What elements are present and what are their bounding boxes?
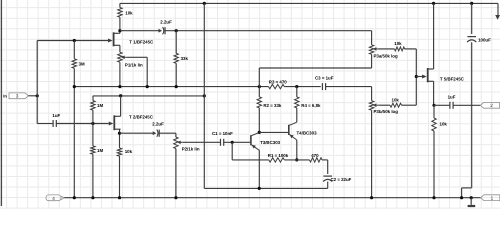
wire T1 source lead xyxy=(119,45,121,52)
node mid rail R2 xyxy=(258,85,261,88)
resistor 10k (P3b) xyxy=(390,103,402,107)
svg-text:T 1/BF245C: T 1/BF245C xyxy=(129,40,154,45)
node 1M junction xyxy=(91,122,94,125)
node C1 junction xyxy=(231,141,234,144)
node gnd 100uF xyxy=(460,196,463,199)
svg-text:10k: 10k xyxy=(392,98,400,103)
wire 2.2uF-b left xyxy=(120,132,154,134)
potentiometer P3b xyxy=(369,101,373,111)
node T3 collector xyxy=(258,131,261,134)
svg-text:1uF: 1uF xyxy=(448,94,456,99)
capacitor 100uF xyxy=(467,36,476,38)
wire T4 base xyxy=(259,131,288,133)
wire R1 to 470 xyxy=(284,159,309,161)
connector 4 (ground) xyxy=(46,195,61,201)
transistor T2 xyxy=(113,115,115,130)
wire 3M to ground xyxy=(73,87,75,198)
svg-text:P3b/50k log: P3b/50k log xyxy=(374,109,399,114)
wire 10k-right leads xyxy=(433,105,435,118)
svg-text:In: In xyxy=(3,93,7,98)
wire T2 source xyxy=(119,129,121,148)
node mid rail 33k xyxy=(175,85,178,88)
wire top rail xyxy=(120,2,498,4)
node gnd 1M xyxy=(91,196,94,199)
ground xyxy=(470,198,472,205)
svg-text:P3a/50k log: P3a/50k log xyxy=(374,53,398,58)
wire C1 down xyxy=(231,142,233,160)
power arrow xyxy=(495,15,500,20)
wire P2 wiper to C1 xyxy=(183,141,221,143)
resistor 3M xyxy=(72,59,76,69)
svg-text:3M: 3M xyxy=(79,62,85,67)
wire C2 bottom xyxy=(327,182,329,189)
frame left border xyxy=(0,0,2,206)
wire mid rail right xyxy=(326,86,372,88)
resistor R3 = 470 xyxy=(269,84,285,88)
potentiometer P2 xyxy=(174,137,178,149)
node gnd P2 xyxy=(174,196,177,199)
svg-text:10k: 10k xyxy=(394,41,402,46)
wire supply corner xyxy=(497,3,499,15)
transistor T5 xyxy=(427,68,429,82)
wire T5 gate xyxy=(416,76,422,78)
wire 10k to gate corner xyxy=(405,48,417,50)
node 3M top xyxy=(73,39,76,42)
svg-text:100uF: 100uF xyxy=(478,37,491,42)
capacitor C1 = 10nF xyxy=(220,139,222,146)
resistor 33k xyxy=(174,53,178,63)
node In xyxy=(36,94,39,97)
svg-text:2: 2 xyxy=(490,103,493,108)
resistor 10k (T1 drain) xyxy=(118,8,122,18)
wire T5 drain xyxy=(433,3,435,69)
resistor R1 = 100k xyxy=(269,158,285,162)
node T1 drain junction xyxy=(118,29,121,32)
wire 33k leads xyxy=(175,31,177,54)
potentiometer P1 xyxy=(118,52,122,62)
wire mid rail mid xyxy=(284,86,321,88)
wire R4 leads xyxy=(296,87,298,97)
svg-text:R2 = 33k: R2 = 33k xyxy=(263,103,282,108)
node top rail junction C xyxy=(470,2,473,5)
wire P3a top xyxy=(371,31,373,45)
node top rail junction B xyxy=(432,2,435,5)
svg-text:T3/BC303: T3/BC303 xyxy=(260,140,281,145)
wire 1uF right xyxy=(56,123,108,125)
connector 1 (supply) xyxy=(481,195,500,201)
wire output left xyxy=(434,104,450,106)
wire 100uF bottom xyxy=(471,42,473,188)
resistor R4 = 6,8k xyxy=(295,97,299,108)
svg-text:10k: 10k xyxy=(125,149,133,154)
resistor 1M (lower) xyxy=(91,146,95,154)
svg-text:P2/1k lin: P2/1k lin xyxy=(182,146,200,151)
potentiometer P3a xyxy=(369,45,373,55)
wire P3b top xyxy=(371,87,373,101)
wire 1M#2 leads xyxy=(92,124,94,146)
capacitor 1uF (output) xyxy=(449,102,451,109)
wire 2.2uF left xyxy=(120,30,159,32)
node mid rail R4 xyxy=(295,85,298,88)
transistor T3 xyxy=(250,135,252,145)
resistor 1M (upper) xyxy=(91,101,95,111)
wire P3b wiper xyxy=(379,104,390,106)
svg-text:C3 = 1uF: C3 = 1uF xyxy=(315,76,334,81)
node mid rail P1 bottom xyxy=(118,85,121,88)
capacitor 2.2uF (bottom) xyxy=(153,131,157,135)
svg-text:2.2uF: 2.2uF xyxy=(152,122,164,127)
wire 2.2uF right xyxy=(165,30,371,32)
node T4 emitter R1 xyxy=(295,158,298,161)
resistor 10k (T2 source) xyxy=(117,148,121,156)
wire T4 emitter xyxy=(296,140,298,160)
wire output right xyxy=(453,104,480,106)
resistor R2 = 33k xyxy=(257,97,261,108)
node top rail junction A xyxy=(203,2,206,5)
connector 3 (In) xyxy=(9,93,28,99)
svg-text:P1/1k lin: P1/1k lin xyxy=(125,62,143,67)
wire T5 source xyxy=(433,81,435,105)
svg-text:1: 1 xyxy=(491,195,494,200)
svg-text:1uF: 1uF xyxy=(52,113,60,118)
svg-text:T4/BC303: T4/BC303 xyxy=(297,131,318,136)
node gnd symbol junction xyxy=(470,196,473,199)
svg-text:2.2uF: 2.2uF xyxy=(160,20,172,25)
capacitor C3 = 1uF xyxy=(321,83,323,90)
wire P3b bottom xyxy=(371,110,373,198)
wire P3a wiper xyxy=(379,48,395,50)
wire feedback xyxy=(258,68,260,87)
wire emitter bus xyxy=(204,187,327,189)
svg-text:T 5/BF245C: T 5/BF245C xyxy=(440,77,465,82)
capacitor C2 = 22uF xyxy=(323,175,332,177)
svg-text:1M: 1M xyxy=(97,148,103,153)
svg-text:1M: 1M xyxy=(97,103,103,108)
svg-text:10k: 10k xyxy=(125,10,133,15)
svg-text:33k: 33k xyxy=(181,56,189,61)
wire 10k R-top leads xyxy=(119,3,121,7)
node mid rail wiper xyxy=(146,85,149,88)
wire P1 bottom xyxy=(119,62,121,86)
wire 100uF top xyxy=(471,3,473,34)
svg-text:470: 470 xyxy=(311,153,319,158)
capacitor 2.2uF (top) xyxy=(159,29,163,33)
node T2 source xyxy=(118,132,121,135)
svg-text:R4 = 6,8k: R4 = 6,8k xyxy=(301,103,321,108)
wire 1uF left xyxy=(37,123,53,125)
node gnd 3M xyxy=(73,196,76,199)
grid xyxy=(6,0,8,209)
svg-text:3: 3 xyxy=(16,93,19,98)
wire T3 emitter xyxy=(258,150,260,188)
node bias x204 xyxy=(203,94,206,97)
transistor T1 xyxy=(113,32,115,46)
node T5 gate xyxy=(415,75,418,78)
wire In xyxy=(28,95,37,97)
wire signal bus x204 xyxy=(203,3,205,188)
wire 10k to gate corner b xyxy=(402,104,417,106)
svg-text:R3 = 470: R3 = 470 xyxy=(269,79,288,84)
capacitor 1uF (input) xyxy=(52,120,54,127)
resistor 470 xyxy=(310,158,323,162)
wire 1M#1 leads xyxy=(92,96,94,101)
wire 10k to ground xyxy=(119,156,121,198)
wire P1 wiper xyxy=(127,56,147,58)
wire mid rail left xyxy=(74,86,268,88)
wire T1 gate xyxy=(37,40,108,42)
node T5 source xyxy=(432,104,435,107)
resistor 10k (P3a) xyxy=(395,47,405,51)
node gnd 10k-out xyxy=(432,196,435,199)
wire T1 drain lead xyxy=(119,31,121,34)
node emitter bus xyxy=(258,187,261,190)
wire R2 leads xyxy=(258,87,260,97)
resistor 10k (output) xyxy=(432,118,436,131)
connector 2 (Out) xyxy=(480,102,499,108)
wire C1 to T3 base xyxy=(224,141,250,143)
wire P2 bottom xyxy=(175,149,177,198)
svg-text:T 2/BF245C: T 2/BF245C xyxy=(129,115,154,120)
wire bias line xyxy=(93,95,204,97)
svg-text:10k: 10k xyxy=(440,122,448,127)
wire ground rail xyxy=(64,197,480,199)
svg-text:4: 4 xyxy=(52,196,55,201)
wire 470 to C2 xyxy=(322,159,328,161)
transistor T4 xyxy=(288,125,290,135)
svg-text:C2 = 22uF: C2 = 22uF xyxy=(331,177,352,182)
svg-text:C1 = 10nF: C1 = 10nF xyxy=(212,131,233,136)
node gnd P3b xyxy=(370,196,373,199)
wire T2 drain xyxy=(120,96,122,117)
svg-text:R1 = 100k: R1 = 100k xyxy=(268,153,289,158)
wire 3M leads xyxy=(73,41,75,59)
node gnd 10k-T2 xyxy=(118,196,121,199)
node 33k top xyxy=(175,29,178,32)
node mid rail 3M xyxy=(73,85,76,88)
wire 2.2uF-b right xyxy=(160,132,176,134)
wire In vertical xyxy=(36,41,38,124)
node bias T2 xyxy=(119,94,122,97)
